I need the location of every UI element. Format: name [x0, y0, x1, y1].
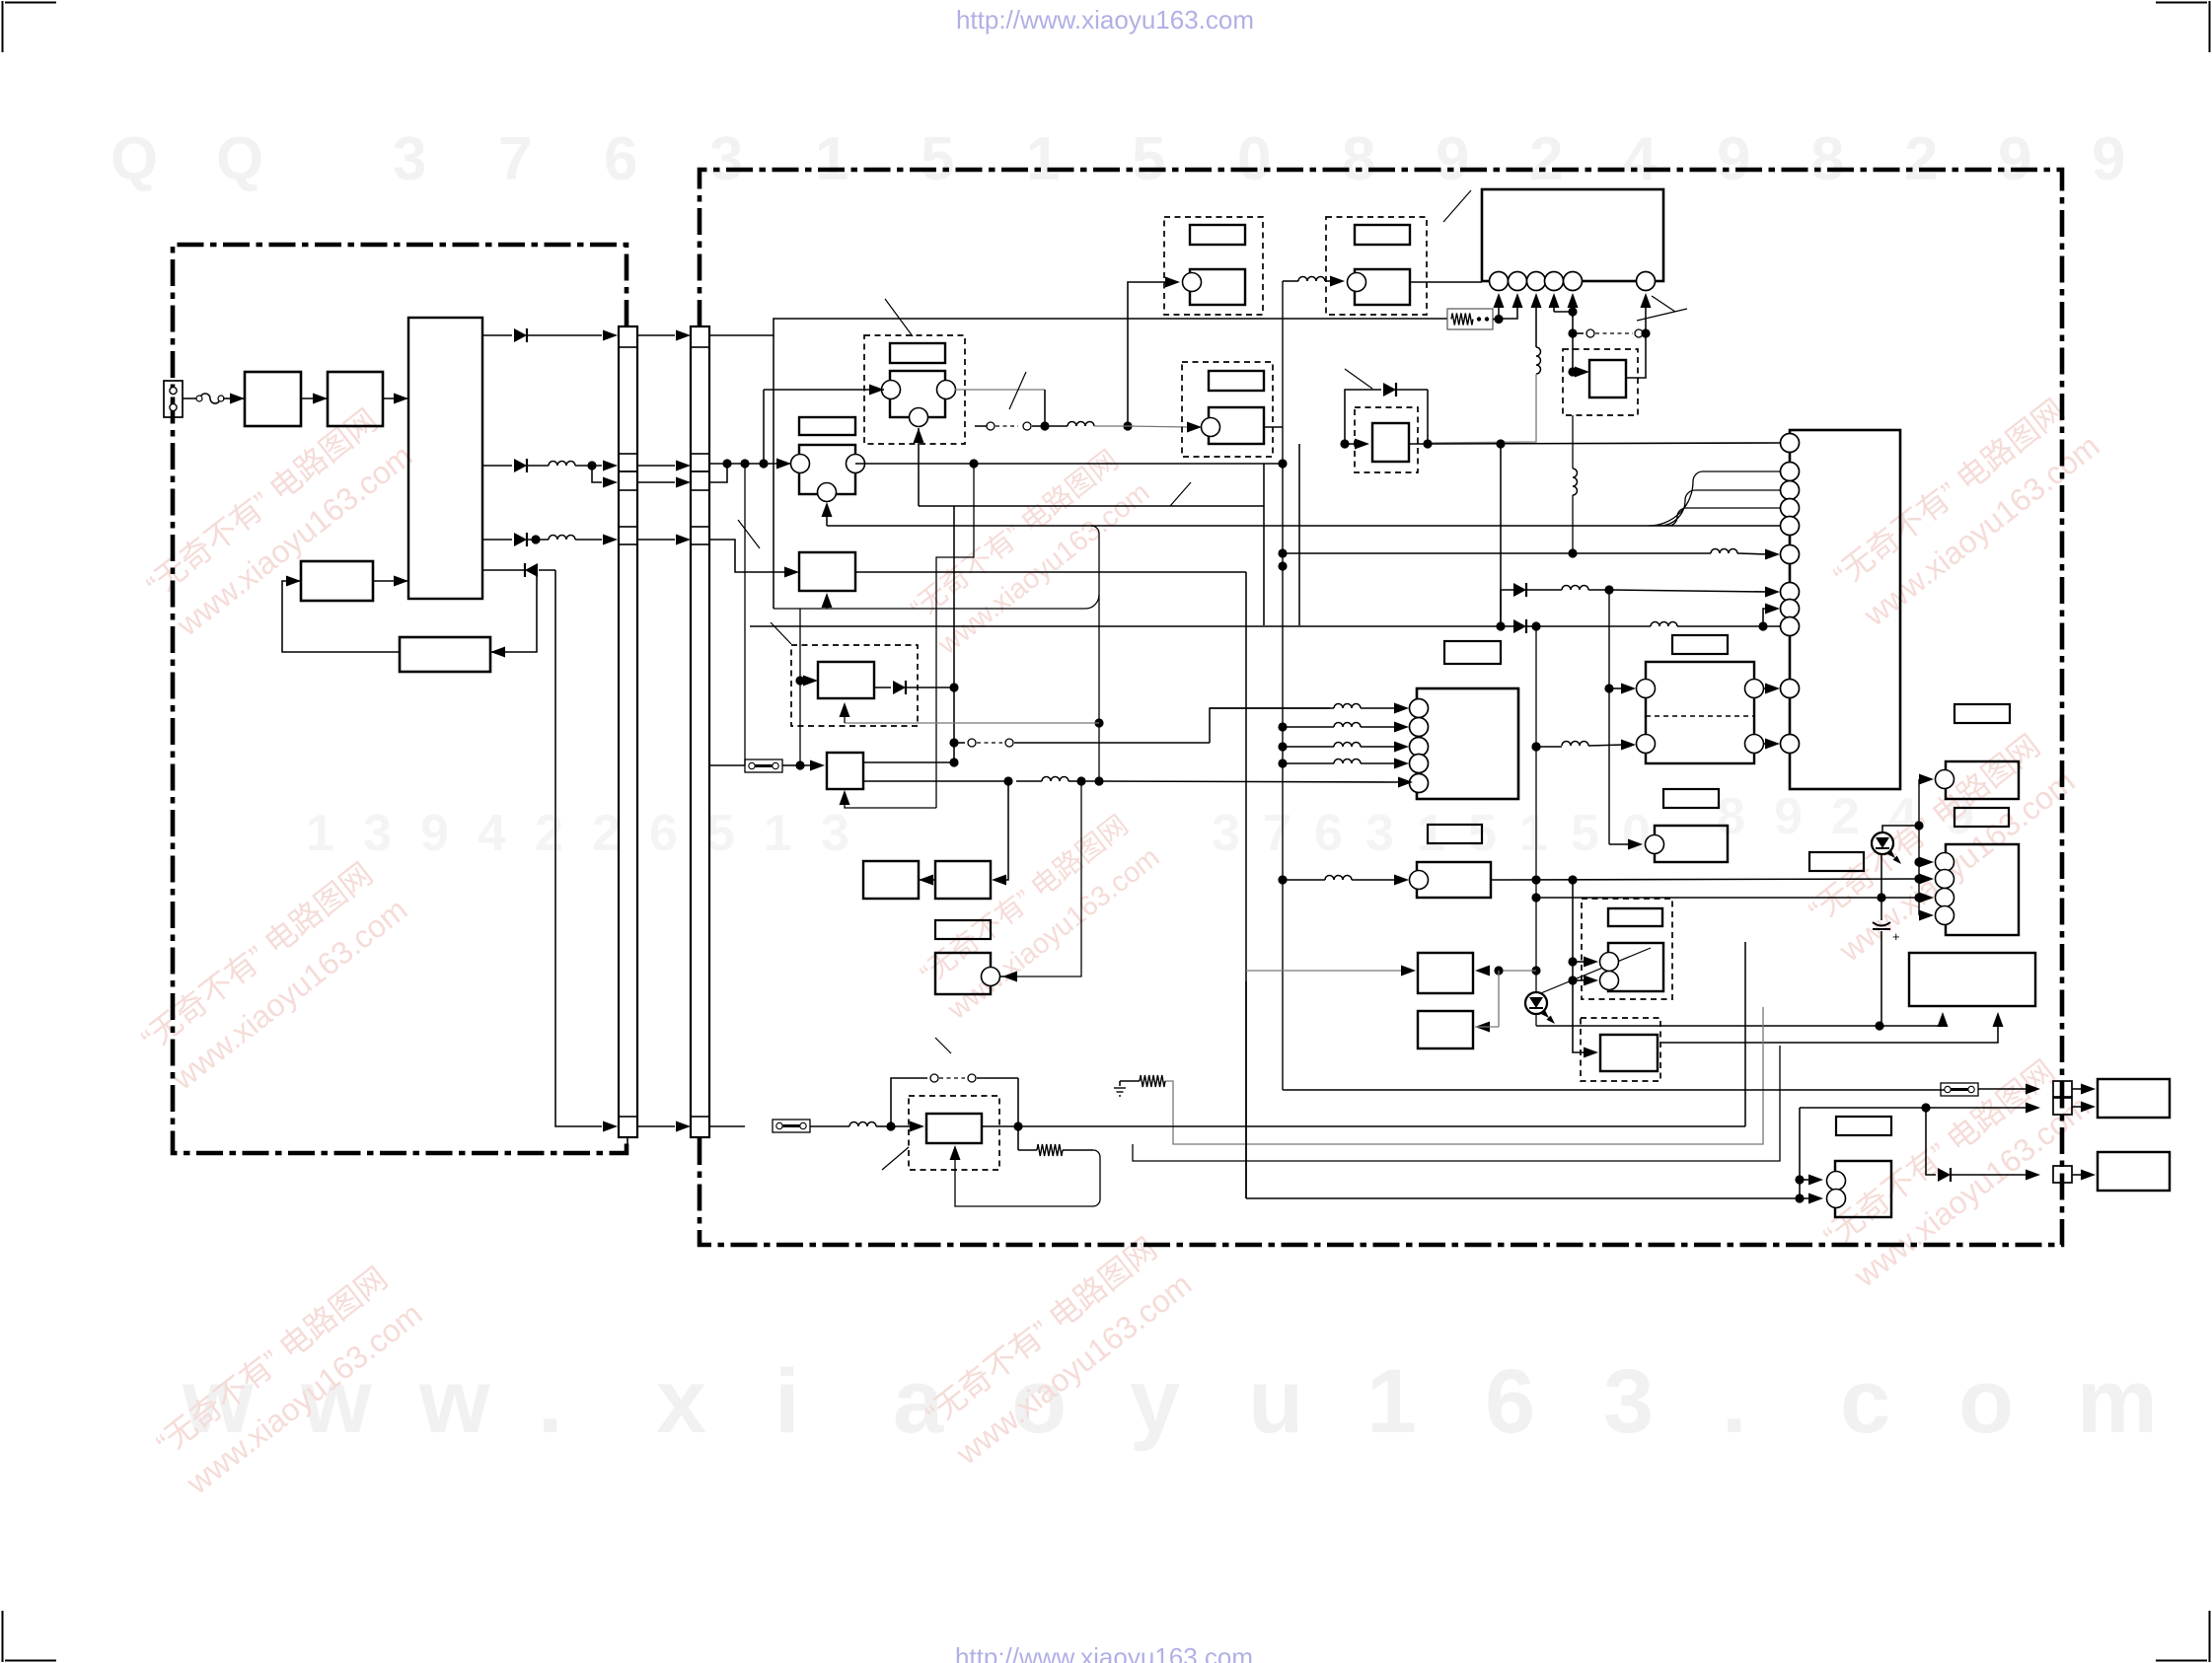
svg-text:http://www.xiaoyu163.com: http://www.xiaoyu163.com	[956, 5, 1254, 35]
wire	[1491, 879, 1919, 880]
pin	[1781, 517, 1800, 536]
diode D4	[874, 687, 891, 688]
block B17 (line out)	[1835, 1161, 1891, 1217]
wire	[1800, 1107, 2028, 1109]
svg-text:1: 1	[1026, 125, 1060, 193]
IC U4 (syscon/servo)	[1790, 430, 1900, 789]
tuner board outline	[173, 245, 627, 1153]
wire	[1283, 762, 1334, 764]
wire	[373, 580, 408, 582]
wire	[1763, 625, 1780, 627]
node	[1531, 742, 1540, 751]
svg-text:w: w	[418, 1351, 490, 1452]
transistor Q4 (IF amp)	[1326, 217, 1427, 315]
label box	[1809, 852, 1864, 871]
node	[1496, 439, 1505, 448]
block A2 (rectifier)	[328, 372, 383, 426]
inductor L6	[1042, 777, 1069, 782]
svg-text:u: u	[1248, 1351, 1303, 1452]
wire	[1531, 966, 1540, 975]
wire	[955, 389, 1045, 391]
wire	[1006, 781, 1008, 880]
wire	[2072, 1174, 2084, 1176]
IC U1 (power regulator)	[408, 318, 482, 599]
svg-text:6: 6	[604, 125, 637, 193]
wire	[1626, 333, 1646, 378]
connector CN1 (board-to-board bar)	[619, 326, 637, 1137]
wire	[637, 465, 675, 467]
wire	[1668, 508, 1780, 526]
wire	[575, 539, 602, 541]
pin	[1781, 545, 1800, 564]
wire	[1427, 390, 1429, 444]
wire	[1210, 707, 1334, 709]
block A1 (line filter)	[245, 372, 301, 426]
svg-text:4: 4	[1623, 125, 1658, 193]
leader	[1637, 309, 1687, 321]
leader	[1009, 372, 1026, 409]
svg-text:3: 3	[363, 805, 392, 862]
switch S1	[1573, 332, 1584, 334]
wire	[1919, 897, 1922, 899]
block EXT1 (speaker L)	[2098, 1079, 2170, 1118]
wire	[919, 875, 933, 886]
label box	[1954, 808, 2009, 827]
svg-text:5: 5	[921, 125, 954, 193]
wire	[919, 505, 1264, 507]
svg-text:7: 7	[1263, 805, 1291, 862]
wire	[709, 464, 727, 482]
wire	[637, 1125, 675, 1127]
wire	[863, 780, 1008, 782]
pin	[1781, 617, 1800, 636]
wire	[1245, 572, 1247, 1198]
wire	[1572, 415, 1574, 469]
svg-text:c: c	[1840, 1351, 1890, 1452]
wire	[1659, 490, 1780, 526]
svg-text:Q: Q	[216, 125, 263, 193]
wire	[744, 464, 746, 765]
wire	[2072, 1088, 2084, 1090]
inductor L1	[549, 462, 575, 466]
wire	[845, 722, 1099, 724]
diode D8	[1383, 383, 1396, 397]
wire	[1588, 745, 1624, 746]
transistor Q11 (reg 2)	[909, 1096, 999, 1170]
wire	[955, 1150, 1100, 1206]
diode D7	[1938, 1168, 1951, 1182]
wire	[1210, 708, 1330, 743]
wire	[1361, 746, 1395, 748]
pin	[1564, 272, 1583, 291]
connector CN4	[2053, 1166, 2072, 1183]
leader	[935, 1038, 951, 1053]
wire	[1536, 625, 1651, 627]
svg-text:1: 1	[1417, 805, 1445, 862]
svg-text:5: 5	[1132, 125, 1165, 193]
wire	[1572, 333, 1574, 372]
wire	[1165, 1007, 1763, 1144]
node	[1340, 439, 1349, 448]
wire	[1352, 879, 1395, 881]
transistor Q12 (ripple filter)	[1355, 407, 1418, 472]
wire	[1345, 443, 1358, 445]
wire	[1568, 293, 1579, 308]
wire	[709, 463, 780, 465]
svg-text:3: 3	[821, 805, 849, 862]
wire	[1283, 726, 1334, 728]
svg-text:1: 1	[815, 125, 848, 193]
pin	[1637, 272, 1656, 291]
wire	[1127, 317, 1129, 426]
wire	[1094, 425, 1128, 427]
wire	[1978, 1088, 2028, 1090]
pin	[1781, 600, 1800, 618]
wire	[1880, 1020, 1943, 1026]
leader	[882, 1147, 909, 1170]
block B16 (headphone amp)	[1581, 1018, 1660, 1081]
wire	[774, 595, 1099, 609]
pin	[1410, 699, 1429, 718]
inductor L	[1334, 743, 1361, 748]
wire	[918, 428, 920, 506]
wire	[1919, 861, 1922, 863]
wire	[1283, 280, 1298, 282]
wire	[575, 465, 602, 467]
svg-text:1: 1	[764, 805, 792, 862]
block B3a (EQ)	[863, 861, 919, 899]
wire	[1677, 609, 1768, 626]
wire	[1409, 443, 1428, 445]
wire	[1919, 878, 1922, 880]
wire	[827, 525, 1780, 527]
pin	[1781, 481, 1800, 500]
pin	[1410, 718, 1429, 737]
svg-text:Q: Q	[111, 125, 158, 193]
wire	[1609, 843, 1630, 845]
svg-text:4: 4	[478, 805, 506, 862]
wire	[780, 463, 791, 465]
wire	[1536, 746, 1562, 748]
resistor R1 (fusible)	[1447, 309, 1493, 329]
block B4 (PLL)	[827, 753, 863, 789]
switch S4	[975, 425, 987, 427]
svg-text:3: 3	[393, 125, 426, 193]
wire	[1498, 971, 1500, 1027]
inductor L11	[1562, 742, 1588, 747]
wire	[1016, 781, 1081, 976]
wire	[1430, 374, 1536, 443]
label box	[1954, 704, 2010, 723]
svg-text:6: 6	[1314, 805, 1343, 862]
svg-text:2: 2	[1529, 125, 1563, 193]
inductor L4	[1298, 277, 1325, 282]
pin	[1410, 774, 1429, 793]
svg-text:1: 1	[306, 805, 334, 862]
svg-text:6: 6	[649, 805, 678, 862]
wire	[1568, 957, 1577, 966]
wire	[1800, 1179, 1811, 1181]
jumper J1	[745, 759, 782, 772]
wire	[1018, 1149, 1037, 1151]
leader	[1170, 482, 1191, 506]
leader	[1531, 948, 1651, 997]
wire	[1016, 780, 1042, 782]
wire	[1410, 281, 1482, 283]
wire	[1283, 746, 1334, 748]
svg-text:x: x	[656, 1351, 706, 1452]
block B12 (relay)	[1418, 1011, 1473, 1048]
wire	[1265, 426, 1283, 428]
wire	[1573, 880, 1586, 1052]
svg-text:http://www.xiaoyu163.com: http://www.xiaoyu163.com	[955, 1642, 1253, 1663]
wire	[1553, 307, 1555, 312]
wire	[872, 389, 884, 391]
wire	[1572, 495, 1574, 553]
wire	[2072, 1106, 2084, 1108]
wire	[744, 463, 746, 465]
leader	[885, 299, 913, 336]
block EXT2 (speaker R)	[2098, 1152, 2170, 1191]
wire	[1554, 311, 1573, 313]
diode D3	[482, 539, 512, 541]
wire	[1799, 1108, 1801, 1198]
wire	[1498, 307, 1500, 319]
inductor L2	[549, 536, 575, 541]
wire	[1536, 1025, 1880, 1027]
label box	[1428, 825, 1482, 843]
capacitor C1 (polarized)	[1880, 854, 1882, 920]
pin	[1781, 463, 1800, 481]
wire	[1263, 464, 1265, 625]
ground GND1	[1120, 1080, 1140, 1082]
svg-text:i: i	[774, 1351, 800, 1452]
switch S3	[891, 1078, 927, 1126]
wire	[1926, 1108, 1936, 1175]
wire	[1428, 443, 1780, 444]
wire	[1283, 879, 1325, 881]
wire	[555, 570, 602, 1126]
block A3 (osc)	[301, 561, 373, 601]
wire	[1017, 1078, 1019, 1150]
wire	[1128, 426, 1189, 427]
leader	[1443, 190, 1471, 222]
wire	[1608, 592, 1610, 844]
wire	[1737, 553, 1768, 554]
svg-text:9: 9	[1774, 788, 1803, 845]
wire	[1882, 826, 1919, 832]
inductor L8	[1562, 586, 1588, 591]
svg-text:2: 2	[535, 805, 563, 862]
block B5 (IF filter)	[799, 552, 855, 591]
svg-text:7: 7	[498, 125, 532, 193]
svg-text:9: 9	[420, 805, 449, 862]
wire	[974, 463, 1283, 465]
wire	[282, 581, 400, 652]
wire	[764, 389, 872, 391]
transistor Q3 (IF amp)	[1164, 217, 1263, 315]
svg-text:0: 0	[1622, 805, 1651, 862]
svg-text:8: 8	[1810, 125, 1844, 193]
leader	[1345, 369, 1372, 389]
wire	[1501, 590, 1513, 626]
node	[1278, 459, 1287, 468]
wire	[592, 466, 602, 482]
transistor Q1 (RF amp)	[864, 335, 965, 444]
wire	[795, 676, 804, 685]
diode D2	[482, 465, 512, 467]
pin	[1545, 272, 1564, 291]
IC U2 (video/chroma)	[1482, 189, 1663, 281]
wire	[1918, 779, 1920, 915]
wire	[876, 1125, 891, 1127]
wire	[1536, 897, 1918, 899]
connector CN3a	[2053, 1081, 2072, 1097]
label box	[1444, 641, 1501, 664]
svg-text:3: 3	[709, 125, 743, 193]
resistor R3	[1037, 1144, 1063, 1156]
leader	[738, 520, 760, 548]
leader	[1652, 296, 1675, 312]
svg-text:y: y	[1130, 1351, 1180, 1452]
wire	[1246, 1197, 1800, 1199]
svg-text:9: 9	[1998, 125, 2031, 193]
pin	[1781, 434, 1800, 453]
wire	[637, 334, 675, 336]
wire	[637, 481, 675, 483]
wire	[763, 390, 765, 464]
wire	[1361, 707, 1395, 709]
svg-text:0: 0	[1237, 125, 1271, 193]
wire	[1475, 1022, 1490, 1033]
wire	[1499, 970, 1536, 972]
inductor L	[1334, 759, 1361, 764]
label box	[1672, 635, 1728, 654]
pin	[1490, 272, 1509, 291]
wire	[826, 506, 828, 526]
wire	[750, 625, 1501, 627]
wire	[1919, 778, 1922, 780]
transistor Q6 (AGC)	[1182, 362, 1273, 457]
diode D6	[1513, 619, 1526, 633]
transistor Q5 (reg)	[1563, 349, 1638, 415]
wire	[1645, 307, 1647, 333]
wire	[383, 398, 408, 399]
diode D5	[1513, 583, 1526, 597]
pin	[1781, 583, 1800, 602]
pin	[1781, 499, 1800, 518]
wire	[1764, 687, 1768, 689]
inductor L	[1334, 704, 1361, 709]
block B15 (power amp)	[1909, 953, 2035, 1006]
wire	[1282, 281, 1284, 1090]
inductor L12	[849, 1122, 876, 1127]
svg-text:3: 3	[1365, 805, 1394, 862]
wire	[863, 761, 954, 763]
AC inlet connector	[164, 381, 183, 417]
block B8 (deemph)	[1417, 862, 1491, 898]
label box	[1663, 789, 1719, 808]
wire	[1535, 626, 1537, 1026]
wire	[1298, 444, 1300, 625]
block B10 (motor drive)	[1655, 826, 1728, 862]
wire	[709, 319, 1128, 335]
wire	[1764, 743, 1768, 745]
label box	[1836, 1117, 1891, 1135]
label box	[935, 920, 991, 939]
LED LED2	[1872, 832, 1893, 854]
block B9 (VCO)	[935, 953, 991, 994]
svg-text:6: 6	[1485, 1351, 1535, 1452]
jumper J3	[1941, 1083, 1978, 1096]
inductor L5	[1068, 422, 1094, 427]
pin	[1509, 272, 1527, 291]
svg-text:9: 9	[1436, 125, 1469, 193]
wire	[982, 1125, 1745, 1127]
svg-text:2: 2	[1831, 788, 1860, 845]
wire	[782, 764, 794, 766]
pin	[1781, 735, 1800, 754]
block A4 (feedback)	[400, 637, 490, 672]
inductor L7	[1711, 549, 1737, 554]
svg-text:3: 3	[1212, 805, 1240, 862]
wire	[1568, 976, 1577, 984]
pin	[1410, 755, 1429, 773]
wire	[953, 506, 955, 762]
svg-text:+: +	[1892, 929, 1900, 944]
wire	[1345, 390, 1381, 444]
wire	[709, 540, 785, 572]
wire	[1499, 307, 1517, 319]
svg-text:9: 9	[1717, 125, 1750, 193]
svg-text:3: 3	[1603, 1351, 1654, 1452]
block B13 (audio amp L)	[1946, 761, 2019, 799]
wire	[1283, 552, 1711, 554]
wire	[1044, 390, 1046, 426]
wire	[1361, 762, 1395, 764]
wire	[1588, 589, 1609, 591]
connector CN2 (board-to-board bar)	[691, 326, 709, 1137]
wire	[845, 792, 936, 808]
wire	[231, 398, 245, 399]
diode D1	[482, 334, 512, 336]
wire	[637, 539, 675, 541]
wire	[826, 595, 828, 609]
inductor L	[1334, 723, 1361, 727]
transistor Q7 (det)	[791, 645, 918, 726]
connector CN3b	[2053, 1098, 2072, 1115]
pin	[1410, 738, 1429, 757]
wire	[773, 335, 774, 609]
pin	[1527, 272, 1546, 291]
wire	[810, 1125, 849, 1127]
wire	[709, 764, 745, 766]
svg-text:9: 9	[2092, 125, 2125, 193]
IC U3 (audio mpx)	[1417, 688, 1518, 799]
wire	[1246, 970, 1404, 972]
svg-text:5: 5	[706, 805, 735, 862]
wire	[1649, 471, 1780, 526]
wire	[1500, 444, 1502, 626]
wire	[709, 1125, 745, 1127]
inductor L13 (vertical)	[1573, 469, 1578, 495]
wire	[844, 712, 846, 723]
svg-text:m: m	[2077, 1351, 2158, 1452]
svg-text:8: 8	[1717, 788, 1745, 845]
wire	[855, 571, 1246, 573]
wire	[1361, 726, 1395, 728]
wire	[490, 570, 537, 652]
